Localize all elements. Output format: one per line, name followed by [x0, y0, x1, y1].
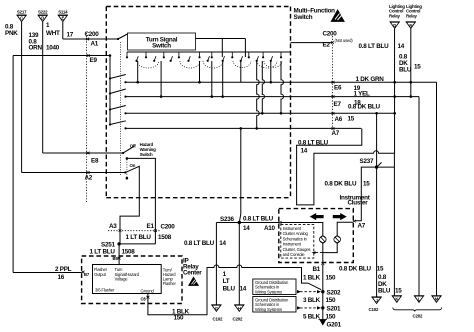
wire S237 left to instrument cluster A7	[355, 167, 376, 221]
svg-text:1 BLK: 1 BLK	[303, 274, 321, 281]
svg-text:B1: B1	[313, 266, 321, 273]
pin marker E2	[331, 41, 334, 44]
connector C200 dashed line mid	[108, 230, 160, 232]
svg-text:Cluster: Cluster	[348, 199, 369, 206]
fuse symbol S114	[58, 9, 69, 21]
pin marker A6	[332, 112, 335, 115]
svg-text:BLU: BLU	[378, 287, 391, 294]
lighting control relay symbol 1	[389, 4, 405, 29]
pin marker A1	[86, 38, 89, 41]
pin marker B7	[82, 271, 85, 274]
svg-text:Wiring Systems: Wiring Systems	[255, 307, 282, 312]
splice S251	[117, 242, 120, 245]
switch wiper blade 1	[110, 75, 126, 79]
hazard on lower contact dot	[126, 177, 129, 180]
svg-text:1508: 1508	[158, 234, 172, 241]
svg-text:15: 15	[348, 115, 355, 122]
svg-text:1 LT BLU: 1 LT BLU	[90, 249, 116, 256]
pin marker E8	[87, 152, 90, 155]
fuse symbol S222	[38, 9, 49, 21]
svg-text:A10: A10	[264, 225, 276, 232]
wire 2 PPL to B7	[13, 272, 82, 274]
wire S251 horizontal	[119, 243, 155, 245]
pin marker E9	[87, 54, 90, 57]
svg-text:G201: G201	[327, 322, 342, 329]
svg-text:E9: E9	[90, 57, 98, 64]
svg-text:0.8 LT BLU: 0.8 LT BLU	[184, 240, 215, 247]
svg-text:5 BLK: 5 BLK	[303, 313, 321, 320]
svg-text:A7: A7	[358, 222, 366, 229]
pin marker A10	[279, 221, 282, 224]
dashed arrow to S201	[300, 307, 317, 309]
svg-text:3/6 Flasher: 3/6 Flasher	[95, 288, 115, 293]
svg-text:BLU: BLU	[399, 66, 412, 73]
svg-text:150: 150	[326, 274, 337, 281]
wire S236 down branch to C202	[238, 223, 240, 305]
row wire 4 (to 0.8 LT BLU)	[126, 127, 362, 129]
svg-text:14: 14	[243, 225, 250, 232]
svg-text:(Not used): (Not used)	[335, 38, 354, 43]
switch wiper blade 2	[110, 89, 126, 94]
svg-text:2 PPL: 2 PPL	[55, 266, 72, 273]
svg-text:WHT: WHT	[46, 30, 60, 37]
svg-text:B7: B7	[84, 272, 90, 277]
svg-text:Switch: Switch	[140, 152, 153, 157]
row wire 2 (to 1 YEL)	[126, 96, 420, 98]
svg-text:14: 14	[240, 285, 247, 292]
wire DK GRN down to C202 M	[436, 82, 438, 296]
connector C200 dashed line right	[331, 36, 333, 131]
svg-text:BLU: BLU	[223, 285, 236, 292]
svg-text:S222: S222	[38, 9, 48, 14]
wire branch to 2 PPL	[12, 56, 14, 273]
svg-text:150: 150	[174, 314, 185, 321]
flasher box	[93, 265, 162, 294]
connector C202 mid triangle	[234, 305, 244, 312]
splice S237	[375, 165, 378, 168]
svg-text:15: 15	[395, 287, 402, 294]
svg-text:Switch: Switch	[152, 43, 171, 50]
wire S236 left branch down to C102	[215, 223, 217, 305]
switch linkage dotted line	[120, 42, 122, 176]
svg-text:C: C	[20, 16, 23, 21]
wire 0.8 ORN 1040 from S222	[42, 22, 44, 153]
svg-text:15: 15	[414, 64, 421, 71]
brace C202	[393, 308, 442, 312]
svg-text:S237: S237	[360, 158, 374, 165]
lamp ground wires to B1	[323, 243, 337, 263]
wire C8 ground run to S202	[148, 265, 321, 315]
svg-text:C200: C200	[161, 223, 176, 230]
pin marker B1	[321, 262, 324, 265]
pin marker B9	[118, 257, 121, 260]
svg-text:E8: E8	[91, 157, 99, 164]
svg-text:S202: S202	[327, 289, 341, 296]
svg-text:A2: A2	[85, 175, 93, 182]
warning triangle icon (multi-function switch)	[331, 9, 345, 22]
svg-text:14: 14	[398, 43, 405, 50]
connector C102 mid triangle	[211, 305, 221, 312]
svg-text:14: 14	[219, 240, 226, 247]
svg-text:A7: A7	[332, 130, 340, 137]
turn signal switch label box	[128, 33, 196, 50]
svg-text:0.8 LT BLU: 0.8 LT BLU	[359, 43, 390, 50]
splice S201	[321, 306, 324, 309]
svg-text:17: 17	[67, 32, 74, 39]
svg-text:C8: C8	[141, 297, 147, 302]
wire A3 down to S251	[118, 232, 121, 244]
svg-text:E6: E6	[334, 85, 342, 92]
pin marker A2	[87, 171, 90, 174]
lighting control relay symbol 2	[406, 4, 423, 29]
hazard off blade	[123, 146, 134, 153]
svg-text:H: H	[238, 306, 241, 311]
svg-text:E1: E1	[147, 223, 155, 230]
svg-text:1508: 1508	[122, 249, 136, 256]
svg-text:Off: Off	[130, 144, 136, 149]
pin marker C8	[146, 296, 149, 299]
wire A2	[22, 172, 126, 174]
wire row4 A7 staircase to relay1 junction	[297, 128, 395, 296]
wire YEL down to C202 L	[418, 97, 420, 296]
contact row of turn signal switch	[126, 52, 282, 68]
svg-text:K: K	[395, 297, 398, 302]
junction dots at row1 relay crossings	[393, 81, 396, 84]
row wire 1 (to 1 DK GRN)	[126, 81, 437, 83]
svg-text:Ground: Ground	[141, 288, 155, 293]
svg-text:0.8 DK BLU: 0.8 DK BLU	[325, 180, 357, 187]
connector C200 dashed line top	[86, 33, 88, 202]
wire B1 to G201 ground chain	[322, 265, 324, 320]
pin marker E7	[332, 95, 335, 98]
ground distribution reference box 1	[253, 279, 296, 295]
svg-text:1 LT BLU: 1 LT BLU	[126, 234, 152, 241]
svg-text:0.8 LT BLU: 0.8 LT BLU	[243, 216, 274, 223]
svg-text:15: 15	[377, 266, 384, 273]
contact drop to row1 b	[199, 61, 201, 82]
ground G201	[319, 320, 327, 326]
svg-text:C200: C200	[323, 30, 338, 37]
splice S202	[321, 290, 324, 293]
svg-text:Relay: Relay	[406, 13, 417, 18]
svg-text:and Console: and Console	[283, 252, 306, 257]
svg-text:0.8 DK BLU: 0.8 DK BLU	[339, 266, 371, 273]
svg-text:0.8 DK BLU: 0.8 DK BLU	[348, 104, 380, 111]
wire row3 drop to S237	[376, 113, 378, 167]
contact drop to row1 d	[240, 61, 242, 82]
ground distribution reference box 2	[253, 297, 296, 313]
switch wiper blade 3	[110, 106, 126, 110]
svg-text:Voltage: Voltage	[115, 277, 129, 282]
contact drop to row2 c	[222, 61, 224, 97]
svg-text:On: On	[130, 163, 136, 168]
svg-text:1 DK GRN: 1 DK GRN	[356, 76, 385, 83]
wiper feed wire from E9	[109, 56, 111, 125]
pin marker E6	[332, 81, 335, 84]
svg-text:D: D	[41, 16, 44, 21]
wire A10 to left lamp	[281, 223, 323, 237]
wire 0.8 PNK 139 from S217	[21, 22, 23, 173]
connector C202 triangle M	[431, 296, 441, 303]
svg-text:C202: C202	[413, 313, 423, 318]
warning triangle icon (IP relay center)	[188, 276, 199, 286]
svg-text:C102: C102	[369, 307, 379, 312]
svg-text:Switch: Switch	[294, 14, 313, 21]
svg-text:3 BLK: 3 BLK	[303, 297, 321, 304]
hazard common wire to E1	[126, 157, 129, 160]
pin marker A7 cluster	[353, 220, 356, 223]
indicator lamp left	[320, 235, 327, 243]
svg-text:150: 150	[326, 297, 337, 304]
right turn indicator arrow	[333, 213, 347, 220]
switch wiper blade 4	[110, 121, 126, 125]
svg-text:S201: S201	[327, 305, 341, 312]
IP relay center dashed box	[82, 256, 182, 304]
turn signal switch blade A1	[118, 34, 127, 39]
contact drop to row1 c	[270, 61, 272, 82]
contact drop to row4 with hops	[257, 61, 260, 128]
hazard linkage dotted	[126, 160, 128, 178]
hazard warning switch off contact	[43, 152, 123, 154]
connector C202 triangle L	[414, 296, 424, 303]
wire 1 WHT 17 from S114	[62, 22, 64, 39]
svg-text:S217: S217	[17, 9, 27, 14]
contact drop to row2 b	[211, 61, 213, 97]
svg-text:S251: S251	[101, 241, 115, 248]
instrument cluster reference dashed box	[281, 224, 314, 258]
svg-text:1040: 1040	[46, 44, 60, 51]
svg-text:Center: Center	[183, 270, 202, 277]
svg-text:E7: E7	[334, 101, 342, 108]
svg-text:14: 14	[301, 148, 308, 155]
row wire 3 (to 0.8 DK BLU)	[126, 112, 395, 114]
arrow into reference text	[312, 251, 316, 254]
connector C202 triangle K	[392, 296, 402, 303]
svg-text:S236: S236	[220, 216, 234, 223]
svg-text:Wiring Systems: Wiring Systems	[255, 289, 282, 294]
contact drop to row1	[137, 61, 139, 82]
contact drop to row3 c	[262, 61, 264, 113]
pin marker A3	[119, 229, 122, 232]
svg-text:LT: LT	[223, 278, 230, 285]
svg-text:C202: C202	[233, 317, 243, 322]
contact drop to row2	[160, 61, 162, 97]
pin marker A7	[332, 127, 335, 130]
wire from switch box to contacts	[196, 39, 246, 58]
wire S237 right to junction	[377, 166, 395, 168]
svg-text:A3: A3	[109, 223, 117, 230]
splice S236	[238, 221, 241, 224]
svg-text:PNK: PNK	[5, 30, 18, 37]
left turn indicator arrow	[310, 213, 324, 220]
instrument cluster dashed box	[279, 209, 354, 263]
svg-text:15: 15	[363, 180, 370, 187]
wire 0.8 DK BLU 15 from relay 2	[410, 28, 412, 96]
svg-text:N: N	[409, 23, 412, 28]
svg-text:C102: C102	[213, 317, 223, 322]
indicator lamp right	[334, 235, 341, 243]
svg-text:E2: E2	[323, 41, 331, 48]
wire A7 to right lamp	[337, 222, 353, 236]
svg-text:S114: S114	[58, 9, 68, 14]
wire E9	[13, 55, 110, 57]
wire A1 feed to turn signal switch	[63, 38, 118, 40]
svg-text:Relay: Relay	[389, 13, 400, 18]
wire E2 not used	[291, 42, 333, 44]
hazard on blade	[120, 166, 139, 230]
svg-text:C200: C200	[85, 31, 100, 38]
multi-function switch dashed box	[106, 7, 290, 198]
wire S236 to A10	[216, 222, 279, 224]
svg-text:16: 16	[58, 274, 65, 281]
connector C102 right triangle J	[371, 296, 381, 304]
svg-text:A1: A1	[91, 41, 99, 48]
svg-text:ORN: ORN	[29, 44, 43, 51]
pin marker E1	[154, 229, 157, 232]
svg-text:D: D	[393, 23, 396, 28]
svg-text:150: 150	[326, 313, 337, 320]
contact drop to row3 with hops	[281, 61, 284, 113]
svg-text:E: E	[61, 16, 64, 21]
fuse symbol S217	[16, 9, 27, 21]
svg-text:A6: A6	[335, 116, 343, 123]
svg-text:Flasher: Flasher	[163, 281, 177, 286]
wire S237 down to C102	[376, 167, 378, 297]
dashed arrow to S202	[300, 291, 317, 293]
wire 0.8 LT BLU 14 from relay 1	[394, 28, 396, 153]
wire row4 drop to S236	[239, 128, 241, 222]
wire S251 down to B9	[118, 244, 120, 265]
svg-text:G: G	[215, 306, 218, 311]
contact bus wire of turn signal switch	[127, 51, 291, 53]
svg-text:1 YEL: 1 YEL	[354, 90, 371, 97]
svg-text:Output: Output	[94, 272, 107, 277]
